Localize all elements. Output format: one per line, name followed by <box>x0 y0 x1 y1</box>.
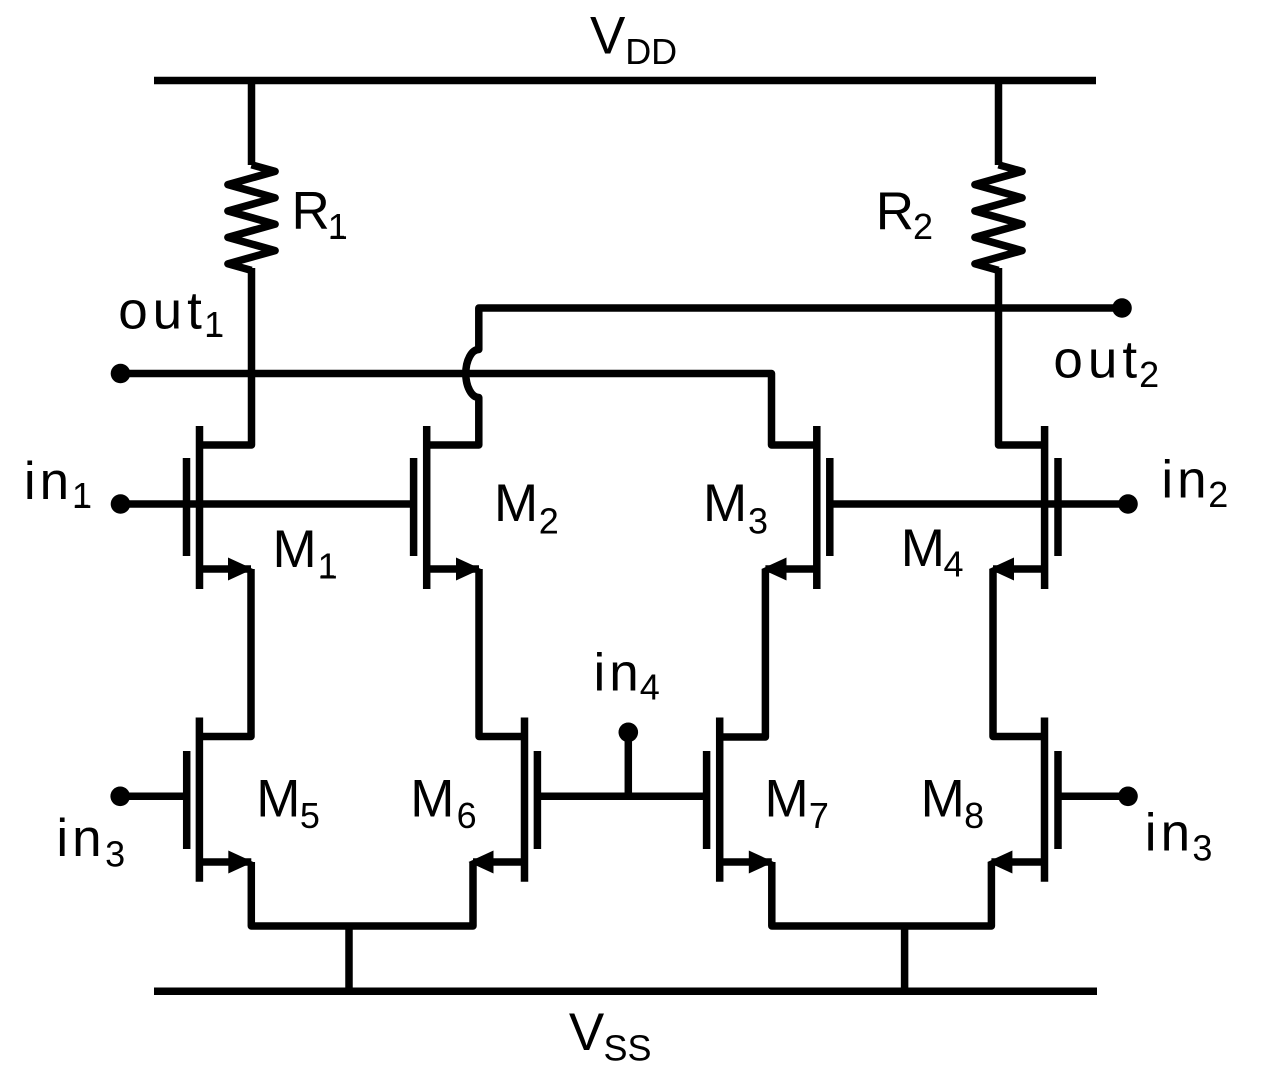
svg-text:M: M <box>256 770 300 829</box>
svg-text:8: 8 <box>964 795 984 836</box>
svg-text:1: 1 <box>204 304 224 345</box>
svg-text:R: R <box>876 182 914 241</box>
svg-text:1: 1 <box>72 475 92 516</box>
svg-text:in: in <box>1145 803 1194 862</box>
wire M7 and M8 sources to VSS <box>772 862 992 991</box>
svg-text:3: 3 <box>105 834 125 875</box>
svg-text:in: in <box>24 452 73 511</box>
svg-text:M: M <box>410 770 454 829</box>
node out2 terminal dot <box>1112 298 1132 318</box>
svg-text:in: in <box>594 644 643 703</box>
wire M3 source to M7 drain <box>716 569 765 737</box>
svg-text:M: M <box>703 474 747 533</box>
svg-text:7: 7 <box>809 795 829 836</box>
svg-text:out: out <box>118 282 207 341</box>
transistor M8 <box>987 718 1058 882</box>
svg-text:in: in <box>56 809 105 868</box>
svg-text:DD: DD <box>625 31 677 72</box>
resistor R2 <box>975 165 1022 271</box>
wire in1 to gates of M1 and M2 <box>121 500 418 508</box>
svg-text:in: in <box>1161 450 1210 509</box>
svg-text:2: 2 <box>539 501 559 542</box>
svg-text:6: 6 <box>457 795 477 836</box>
svg-text:2: 2 <box>1208 474 1228 515</box>
node in4 terminal dot <box>619 723 639 743</box>
wire VDD to R1 <box>248 81 256 166</box>
svg-text:out: out <box>1053 331 1142 390</box>
transistor M6 <box>469 718 538 882</box>
svg-text:4: 4 <box>640 667 660 708</box>
svg-text:1: 1 <box>318 546 338 587</box>
svg-text:R: R <box>292 181 330 240</box>
wire M5 and M6 sources to VSS <box>251 862 473 991</box>
wire M4 source to M8 drain <box>993 569 1048 737</box>
wire M2 source to M6 drain <box>479 569 528 737</box>
svg-text:M: M <box>901 519 945 578</box>
svg-text:SS: SS <box>604 1028 652 1069</box>
svg-text:M: M <box>494 474 538 533</box>
svg-text:M: M <box>765 770 809 829</box>
transistor M7 <box>707 718 774 882</box>
power rail VDD <box>154 77 1096 85</box>
power rail VSS <box>154 988 1097 996</box>
svg-text:3: 3 <box>1192 828 1212 869</box>
transistor M5 <box>187 718 254 882</box>
resistor R1 <box>228 165 275 271</box>
wire VDD to R2 <box>995 81 1003 166</box>
wire in3 (right) to M8 gate <box>1055 793 1128 801</box>
svg-text:V: V <box>569 1003 605 1062</box>
wire R1 to out1 node and M1 drain <box>196 268 252 445</box>
wire in4 stub to gate wire <box>625 732 633 796</box>
node in1 terminal dot <box>111 494 131 514</box>
wire out2: M2 drain to node, with hop over out1 <box>423 308 1122 445</box>
wire M1 source to M5 drain <box>196 569 251 737</box>
svg-text:3: 3 <box>748 501 768 542</box>
svg-text:4: 4 <box>944 544 964 585</box>
svg-text:5: 5 <box>300 795 320 836</box>
wire R2 to out2 node and M4 drain <box>999 268 1049 445</box>
node in3 left terminal dot <box>110 787 130 807</box>
node in2 terminal dot <box>1118 494 1138 514</box>
svg-text:2: 2 <box>1139 354 1159 395</box>
wire out1: node to M3 drain <box>121 374 821 446</box>
transistor M1 <box>187 426 254 589</box>
svg-text:2: 2 <box>913 206 933 247</box>
wire in2 to gates of M4 and M3 <box>827 500 1129 508</box>
transistor M2 <box>414 426 481 589</box>
wire in3 (left) to M5 gate <box>120 793 190 801</box>
transistor M4 <box>989 426 1058 589</box>
node out1 terminal dot <box>111 364 131 384</box>
svg-text:M: M <box>921 770 965 829</box>
svg-text:V: V <box>590 7 626 66</box>
wire M6 gate to M7 gate <box>534 793 710 801</box>
node in3 right terminal dot <box>1118 787 1138 807</box>
transistor M3 <box>762 426 830 589</box>
svg-text:1: 1 <box>328 206 348 247</box>
svg-text:M: M <box>273 520 317 579</box>
